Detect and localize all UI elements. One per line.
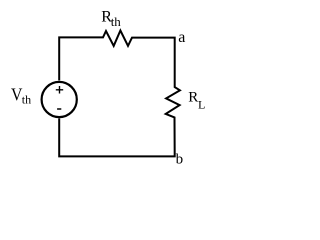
svg-text:b: b bbox=[176, 151, 184, 167]
svg-text:a: a bbox=[178, 29, 185, 46]
svg-text:th: th bbox=[111, 14, 122, 29]
svg-text:R: R bbox=[188, 89, 198, 105]
svg-text:L: L bbox=[198, 98, 205, 112]
svg-text:th: th bbox=[22, 93, 31, 107]
